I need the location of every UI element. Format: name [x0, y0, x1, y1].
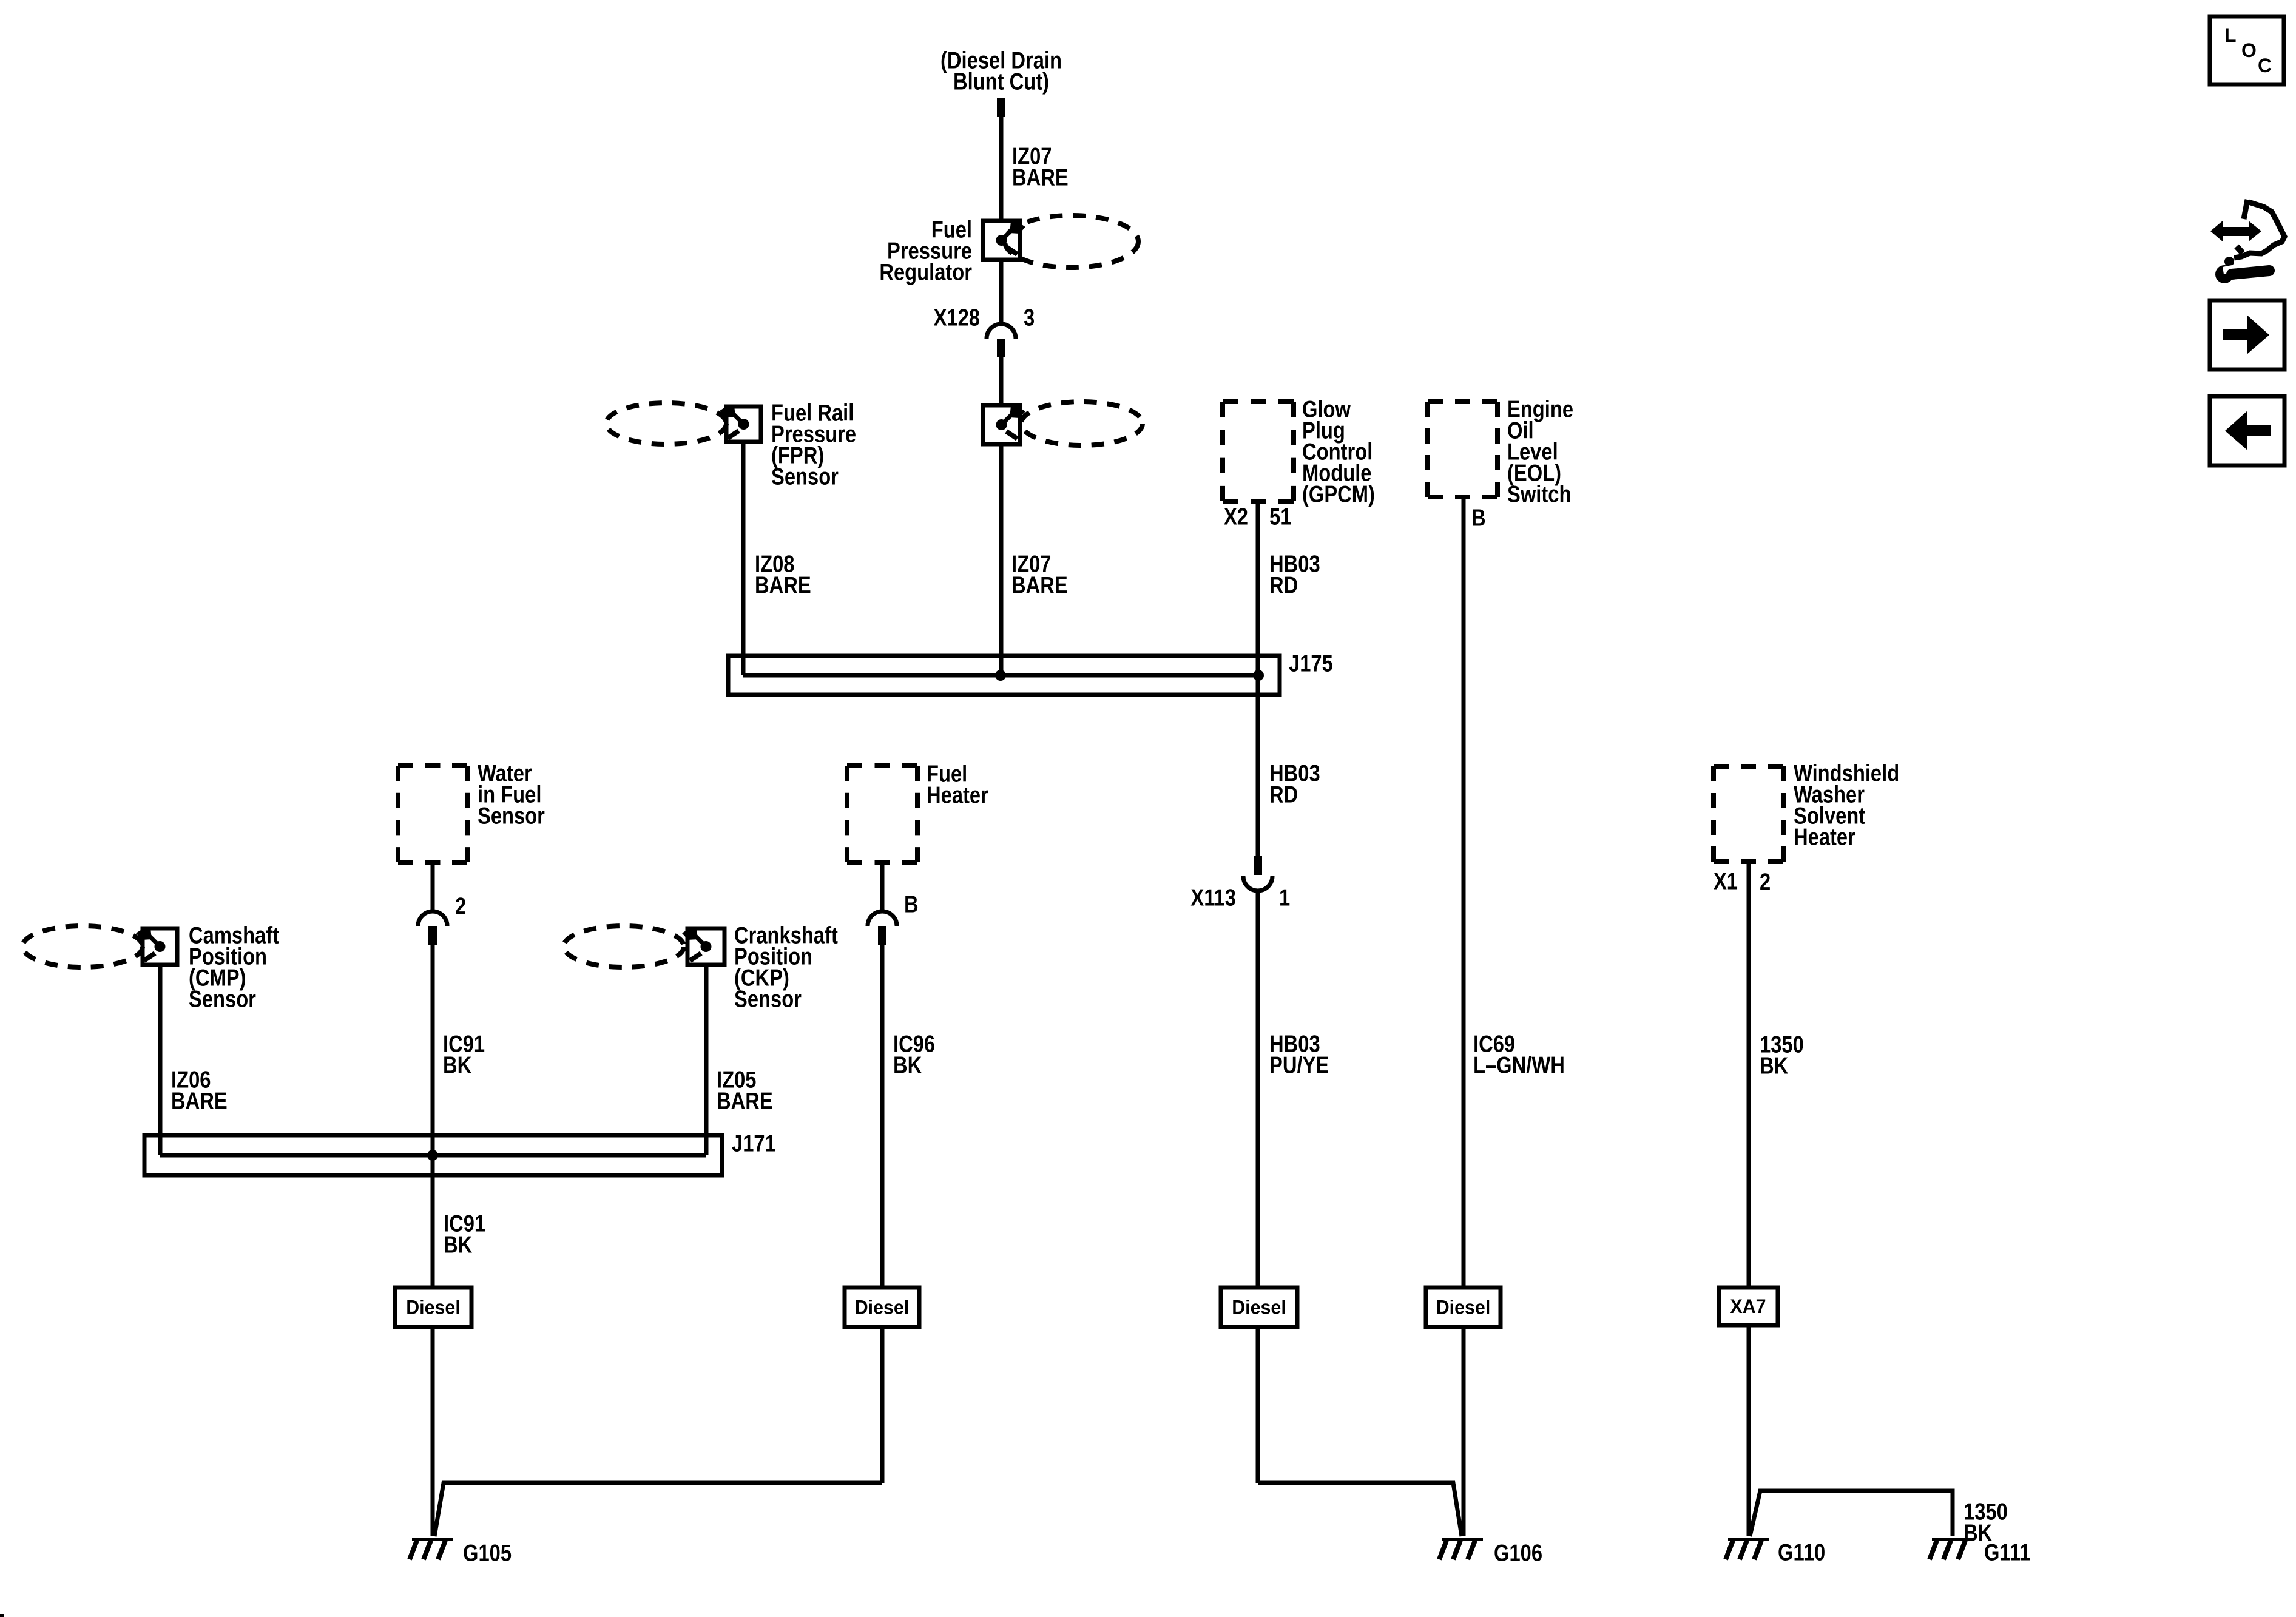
- svg-text:2: 2: [1760, 869, 1771, 895]
- svg-text:G110: G110: [1778, 1539, 1825, 1565]
- svg-text:BK: BK: [443, 1052, 471, 1078]
- svg-text:BARE: BARE: [1012, 164, 1069, 191]
- svg-text:Diesel: Diesel: [855, 1297, 910, 1318]
- svg-text:PU/YE: PU/YE: [1269, 1052, 1329, 1078]
- svg-text:X2: X2: [1224, 504, 1248, 530]
- svg-text:1: 1: [1279, 885, 1290, 911]
- svg-text:51: 51: [1269, 504, 1291, 530]
- svg-text:G106: G106: [1494, 1540, 1542, 1566]
- svg-text:BARE: BARE: [717, 1088, 773, 1114]
- svg-text:B: B: [904, 891, 919, 917]
- svg-text:BK: BK: [1760, 1053, 1788, 1079]
- svg-text:(GPCM): (GPCM): [1302, 481, 1375, 507]
- svg-text:BK: BK: [1963, 1520, 1992, 1546]
- svg-text:Sensor: Sensor: [734, 986, 802, 1012]
- svg-text:J175: J175: [1289, 650, 1333, 677]
- svg-text:Sensor: Sensor: [771, 464, 839, 490]
- svg-text:Sensor: Sensor: [189, 986, 256, 1012]
- svg-text:Heater: Heater: [1794, 824, 1855, 850]
- svg-text:BARE: BARE: [171, 1088, 228, 1114]
- svg-text:Heater: Heater: [927, 782, 988, 808]
- svg-text:BK: BK: [444, 1232, 472, 1258]
- svg-text:L: L: [2224, 24, 2237, 46]
- svg-text:J171: J171: [732, 1130, 776, 1156]
- svg-text:G105: G105: [463, 1540, 512, 1566]
- svg-text:X128: X128: [934, 305, 980, 331]
- svg-text:Diesel: Diesel: [1232, 1297, 1286, 1318]
- svg-text:Sensor: Sensor: [478, 803, 545, 829]
- svg-text:X113: X113: [1190, 885, 1236, 911]
- svg-text:Switch: Switch: [1507, 481, 1571, 507]
- svg-text:BK: BK: [893, 1052, 922, 1078]
- svg-text:Diesel: Diesel: [406, 1297, 461, 1318]
- svg-text:3: 3: [1024, 305, 1035, 331]
- svg-text:B: B: [1471, 505, 1486, 531]
- svg-text:O: O: [2241, 39, 2257, 61]
- svg-text:Blunt Cut): Blunt Cut): [953, 69, 1049, 95]
- svg-text:2: 2: [455, 893, 466, 919]
- svg-text:C: C: [2258, 55, 2272, 76]
- svg-text:X1: X1: [1714, 868, 1738, 894]
- svg-text:Diesel: Diesel: [1436, 1297, 1491, 1318]
- svg-text:Regulator: Regulator: [879, 259, 972, 285]
- svg-text:BARE: BARE: [755, 572, 811, 598]
- svg-text:RD: RD: [1269, 572, 1298, 598]
- svg-text:BARE: BARE: [1011, 572, 1068, 598]
- svg-text:L–GN/WH: L–GN/WH: [1473, 1052, 1565, 1078]
- svg-text:RD: RD: [1269, 781, 1298, 808]
- svg-text:XA7: XA7: [1730, 1295, 1766, 1317]
